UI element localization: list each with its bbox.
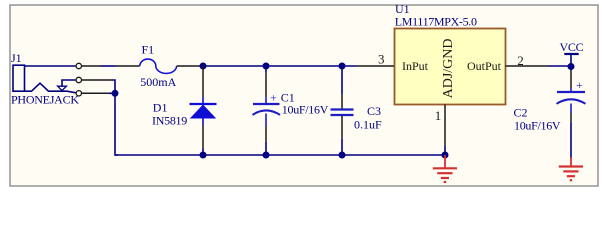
C3 plate lower (331, 114, 354, 116)
svg-text:3: 3 (378, 51, 385, 66)
C1 curved plate (253, 110, 281, 114)
wire pin2 elbow to junction (112, 80, 115, 93)
diode D1 (152, 66, 217, 155)
J1 pin 1 circle (76, 63, 81, 68)
wire pin3 to junction (109, 92, 115, 94)
wire U1 pin1 to ground junction (444, 146, 446, 155)
J1 pin 2 circle (76, 77, 81, 82)
power symbol VCC (560, 40, 584, 67)
F1 body S-curve (140, 59, 177, 73)
U1 pin 2 lead (506, 65, 549, 67)
wire jack pin1 to fuse (101, 65, 116, 67)
J1 switch contact with caret (25, 83, 77, 93)
ground stem red (570, 158, 572, 167)
svg-text:OutPut: OutPut (467, 59, 502, 73)
D1 anode triangle (190, 105, 216, 119)
svg-text:IN5819: IN5819 (152, 113, 187, 127)
svg-text:+: + (576, 78, 583, 92)
ground bar 3 (567, 175, 575, 177)
U1 pin 1 lead (444, 105, 446, 147)
ground stem (444, 155, 446, 168)
ground bar 2 (563, 170, 578, 172)
svg-text:PHONEJACK: PHONEJACK (11, 93, 79, 107)
svg-text:C3: C3 (367, 104, 381, 118)
svg-text:ADJ/GND: ADJ/GND (441, 39, 456, 99)
power ground symbol at C2 (559, 158, 583, 181)
svg-text:D1: D1 (153, 100, 168, 114)
C1 top lead (265, 66, 267, 73)
C2 top lead (570, 67, 572, 71)
svg-text:0.1uF: 0.1uF (354, 118, 382, 132)
svg-text:LM1117MPX-5.0: LM1117MPX-5.0 (395, 14, 477, 28)
capacitor C2 (514, 67, 586, 158)
ground bar 1 (433, 167, 457, 169)
regulator U1 (356, 2, 548, 146)
C1 positive plate (253, 103, 280, 105)
D1 bottom lead (202, 119, 204, 125)
ground bar 2 (437, 172, 452, 174)
svg-text:+: + (270, 90, 277, 104)
D1 cathode bar (190, 103, 217, 105)
svg-text:10uF/16V: 10uF/16V (282, 103, 329, 117)
C3 bottom lead (341, 116, 343, 139)
J1 pin 3 circle (76, 91, 81, 96)
C2 bottom lead (570, 104, 572, 114)
ground bar 3 (441, 177, 449, 179)
ground bar 4 (570, 179, 573, 181)
U1 body (395, 29, 506, 105)
svg-text:500mA: 500mA (140, 75, 176, 89)
connector J1 (11, 51, 112, 107)
junction at C3 top (339, 63, 346, 70)
F1 right lead (177, 65, 200, 67)
capacitor C3 (331, 66, 383, 155)
junction D1 bottom (200, 152, 207, 159)
ground rail wire (115, 154, 445, 156)
junction jack pins 2-3 (112, 90, 119, 97)
svg-text:1: 1 (435, 108, 442, 123)
junction C1 bottom (263, 152, 270, 159)
svg-text:InPut: InPut (402, 59, 429, 73)
J1 pin 3 lead (82, 92, 109, 94)
VCC stem (570, 54, 572, 67)
C2 positive plate (557, 91, 585, 93)
D1 top lead (202, 66, 204, 97)
junction at D1 top (200, 63, 207, 70)
junction U1 pin1 ground (442, 152, 449, 159)
sheet background (0, 0, 602, 188)
J1 pin 1 lead (82, 65, 101, 67)
ground bar 1 (559, 165, 583, 167)
J1 pin 2 lead (82, 79, 112, 81)
wire fuse to U1 input rail (200, 65, 357, 67)
J1 body rectangle (13, 65, 25, 91)
svg-text:2: 2 (517, 53, 524, 68)
capacitor C1 (253, 66, 329, 155)
VCC bar (564, 53, 578, 55)
C2 curved plate (557, 99, 586, 104)
C3 plate upper (331, 108, 354, 110)
ground bar 4 (444, 181, 447, 183)
svg-text:J1: J1 (11, 51, 22, 65)
C1 bottom lead (265, 114, 267, 127)
junction at C1 top (263, 63, 270, 70)
svg-text:F1: F1 (142, 43, 155, 57)
C3 top lead (341, 66, 343, 94)
J1 ring contact wire to arrow (62, 80, 76, 86)
wire U1 output to VCC node (548, 65, 571, 67)
wire jack junction down to ground rail (115, 93, 118, 155)
U1 pin 3 lead (356, 65, 394, 67)
junction VCC node (568, 63, 575, 70)
J1 tip contact wire (25, 65, 77, 67)
power ground symbol at U1 (433, 155, 457, 182)
J1 arrow head (58, 86, 67, 90)
F1 left lead (116, 65, 140, 67)
junction C3 bottom (339, 152, 346, 159)
svg-text:10uF/16V: 10uF/16V (514, 118, 561, 132)
fuse F1 (116, 43, 200, 89)
svg-text:VCC: VCC (560, 40, 584, 54)
